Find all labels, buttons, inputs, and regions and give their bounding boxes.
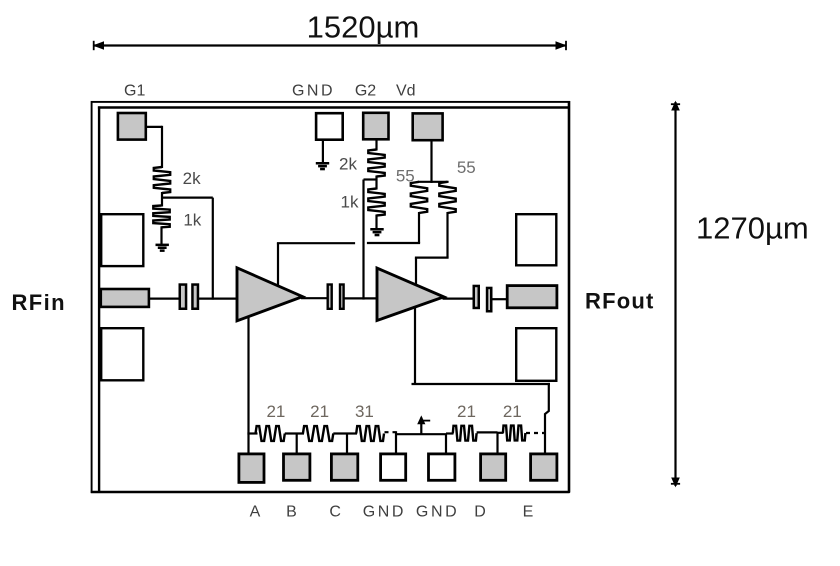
- svg-text:31: 31: [355, 402, 374, 421]
- svg-text:1k: 1k: [183, 210, 201, 229]
- svg-text:Vd: Vd: [396, 83, 416, 100]
- svg-text:C: C: [329, 504, 341, 521]
- svg-text:21: 21: [310, 402, 329, 421]
- svg-text:1520µm: 1520µm: [307, 10, 420, 45]
- svg-text:2k: 2k: [339, 154, 357, 173]
- svg-text:GND: GND: [363, 504, 406, 521]
- svg-text:RFout: RFout: [585, 289, 655, 314]
- svg-text:RFin: RFin: [12, 290, 66, 315]
- svg-text:B: B: [286, 504, 297, 521]
- svg-text:21: 21: [457, 402, 476, 421]
- svg-text:G2: G2: [355, 83, 376, 100]
- svg-text:A: A: [250, 504, 261, 521]
- svg-text:GND: GND: [416, 504, 459, 521]
- svg-text:GND: GND: [292, 83, 335, 100]
- svg-text:21: 21: [503, 402, 522, 421]
- svg-text:2k: 2k: [183, 169, 201, 188]
- svg-text:1k: 1k: [341, 192, 359, 211]
- svg-text:D: D: [474, 504, 486, 521]
- svg-text:1270µm: 1270µm: [696, 211, 809, 246]
- svg-text:G1: G1: [124, 83, 145, 100]
- svg-text:21: 21: [266, 402, 285, 421]
- svg-text:E: E: [523, 504, 534, 521]
- svg-text:55: 55: [457, 158, 476, 177]
